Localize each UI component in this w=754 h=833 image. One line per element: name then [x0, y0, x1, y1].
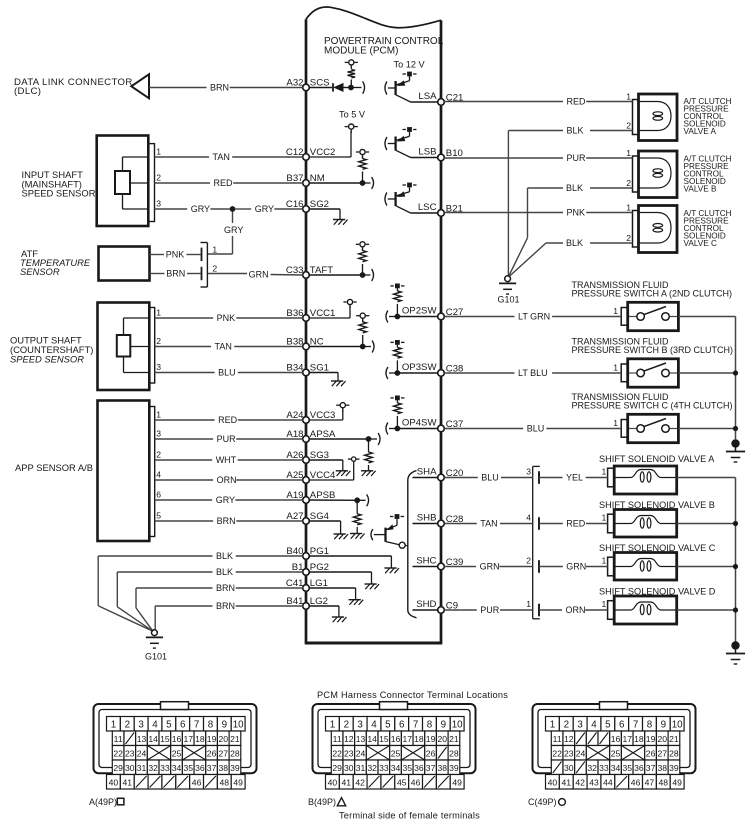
svg-text:PNK: PNK: [567, 208, 586, 218]
svg-text:34: 34: [172, 763, 182, 773]
pin A32/SCS on PCM left edge: [286, 78, 329, 91]
transistor Q-SH shift solenoid driver: [371, 514, 408, 548]
pin C38/OP3SW on PCM right edge: [402, 362, 464, 377]
svg-text:BLK: BLK: [567, 126, 584, 136]
svg-text:7: 7: [413, 720, 418, 731]
svg-text:18: 18: [634, 734, 644, 744]
svg-text:36: 36: [634, 763, 644, 773]
svg-text:40: 40: [328, 778, 338, 788]
ATF temperature sensor box: [99, 247, 150, 281]
continuation mark TAFT: [372, 269, 374, 281]
svg-text:3: 3: [526, 466, 531, 476]
svg-text:34: 34: [611, 763, 621, 773]
svg-text:RED: RED: [567, 97, 587, 107]
ground SG3 inside PCM: [336, 471, 351, 476]
pin A27/SG4 on PCM left edge: [286, 511, 329, 524]
svg-text:39: 39: [669, 763, 679, 773]
continuation mark APSA: [378, 433, 380, 445]
node OP3SW junction: [389, 370, 438, 376]
svg-text:20: 20: [437, 734, 447, 744]
bracket distributing SH driver to SHA-SHD: [408, 471, 417, 618]
svg-text:GRY: GRY: [191, 204, 210, 214]
svg-text:TAN: TAN: [480, 519, 497, 529]
wire ORN APP sensor to A25: [155, 475, 303, 485]
transistor Q-LSC (PNP driver): [385, 183, 417, 213]
svg-text:30: 30: [564, 763, 574, 773]
svg-text:23: 23: [125, 748, 135, 758]
svg-text:11: 11: [114, 734, 123, 744]
resistor R5 APSA pull-down: [365, 439, 373, 471]
svg-text:To 5 V: To 5 V: [339, 110, 366, 120]
svg-text:38: 38: [218, 763, 228, 773]
coil of shift solenoid valve A: [614, 470, 677, 483]
svg-text:33: 33: [599, 763, 609, 773]
caption Terminal side of female terminals: [339, 811, 480, 821]
svg-text:35: 35: [183, 763, 193, 773]
svg-text:41: 41: [342, 778, 352, 788]
svg-text:30: 30: [125, 763, 135, 773]
continuation mark OP4SW: [386, 423, 388, 435]
wire LSC collector to pin: [411, 212, 438, 214]
svg-text:LSA: LSA: [418, 91, 437, 102]
svg-text:A(49P): A(49P): [89, 797, 117, 807]
continuation mark APSB: [367, 494, 369, 506]
svg-text:1: 1: [330, 720, 335, 731]
ATF TEMPERATURE SENSOR label: [20, 248, 91, 277]
resistor R-OP2SW pull-up to 12V: [390, 284, 404, 317]
A/T clutch solenoid valve A label: [684, 97, 732, 136]
svg-text:23: 23: [344, 748, 354, 758]
wire SHB from bracket to pin: [413, 523, 438, 525]
wire BRN from DLC to pin A32: [149, 83, 303, 93]
svg-text:SHD: SHD: [416, 599, 436, 610]
wire SG3 to ground: [309, 460, 343, 471]
svg-text:PUR: PUR: [567, 153, 587, 163]
svg-text:OP4SW: OP4SW: [402, 417, 438, 428]
shift solenoid valve D box: [608, 596, 677, 624]
svg-text:LT BLU: LT BLU: [518, 368, 548, 378]
wire BLK from valve A pin2 to G101: [508, 126, 632, 277]
ground bus for pressure switches: [733, 317, 738, 440]
svg-text:19: 19: [207, 734, 217, 744]
wire shift valve B output to ground bus: [677, 523, 736, 525]
svg-text:PNK: PNK: [166, 250, 185, 260]
svg-text:SENSOR: SENSOR: [20, 266, 60, 277]
svg-text:9: 9: [661, 720, 666, 731]
svg-text:8: 8: [427, 720, 433, 731]
APP sensor box: [98, 401, 155, 542]
svg-text:BRN: BRN: [217, 516, 236, 526]
svg-text:17: 17: [183, 734, 193, 744]
svg-text:17: 17: [622, 734, 632, 744]
shift solenoid valve B label: [599, 500, 715, 510]
svg-text:15: 15: [160, 734, 170, 744]
resistor R-OP4SW pull-up to 12V: [390, 396, 404, 429]
wire NC with junction: [309, 344, 371, 350]
svg-text:TAN: TAN: [215, 342, 232, 352]
wire PUR from PCM to connector pin 1: [444, 605, 533, 615]
svg-text:28: 28: [449, 748, 459, 758]
shift solenoid valve A label: [599, 454, 715, 464]
svg-text:21: 21: [449, 734, 459, 744]
pin 1 label shift valve B: [602, 512, 607, 522]
svg-text:3: 3: [156, 199, 161, 209]
svg-text:VALVE B: VALVE B: [684, 185, 717, 194]
wire TAN input sensor pin1 to C12: [155, 152, 303, 162]
wire NM with junction: [309, 180, 370, 186]
svg-text:37: 37: [207, 763, 217, 773]
ATF in-line connector: [201, 243, 208, 288]
A/T clutch pressure control solenoid valve A box: [633, 94, 678, 141]
ground SG4 inside PCM: [334, 534, 349, 539]
ground LG1 inside PCM: [349, 600, 364, 605]
ground APSA resistor: [361, 471, 376, 476]
svg-text:8: 8: [647, 720, 653, 731]
title PCM Harness Connector Terminal Locations: [317, 690, 508, 700]
svg-text:2: 2: [125, 720, 130, 731]
svg-text:41: 41: [562, 778, 572, 788]
svg-text:2: 2: [156, 173, 161, 183]
A/T clutch pressure control solenoid valve B box: [633, 151, 678, 198]
pin C37/OP4SW on PCM right edge: [402, 417, 464, 432]
pin C9/SHD on PCM right edge: [416, 599, 458, 614]
pin A24/VCC3 on PCM left edge: [286, 410, 335, 423]
pin 1 label ATF connector: [212, 245, 217, 255]
wire SG2 to ground: [309, 209, 340, 220]
coil of solenoid valve B: [639, 158, 672, 188]
pin 1 label valve C: [626, 203, 631, 213]
connector C(49P) shell: [533, 702, 696, 774]
ground SG1 inside PCM: [331, 381, 346, 386]
wire APSA with junction: [309, 436, 377, 442]
pin A18/APSA on PCM left edge: [286, 429, 336, 442]
A/T clutch pressure control solenoid valve C box: [633, 206, 678, 253]
resistor R1 SCS pull-up: [345, 60, 358, 88]
pin C20/SHA on PCM right edge: [417, 466, 464, 481]
pin C12/VCC2 on PCM left edge: [286, 147, 336, 160]
svg-text:SHIFT SOLENOID VALVE A: SHIFT SOLENOID VALVE A: [599, 454, 715, 464]
svg-text:1: 1: [602, 466, 607, 476]
svg-text:9: 9: [441, 720, 446, 731]
svg-text:1: 1: [602, 512, 607, 522]
svg-text:12: 12: [564, 734, 574, 744]
svg-text:OP3SW: OP3SW: [402, 362, 438, 373]
ground symbol pressure switch bus: [726, 439, 745, 462]
svg-text:3: 3: [138, 720, 144, 731]
PCM module box outline: [305, 7, 443, 643]
transistor Q-LSB (PNP driver): [385, 127, 417, 157]
svg-text:WHT: WHT: [216, 455, 237, 465]
ground APSB resistor: [350, 534, 365, 539]
svg-text:SPEED SENSOR: SPEED SENSOR: [22, 188, 96, 199]
wire SHA from bracket to pin: [413, 477, 438, 479]
svg-text:6: 6: [399, 720, 405, 731]
svg-text:1: 1: [111, 720, 116, 731]
svg-text:BLU: BLU: [218, 368, 236, 378]
transmission fluid pressure switch C: [621, 414, 678, 442]
svg-text:21: 21: [669, 734, 679, 744]
pin 2 label valve C: [626, 233, 631, 243]
svg-text:20: 20: [657, 734, 667, 744]
INPUT SHAFT SPEED SENSOR label: [22, 169, 96, 199]
svg-text:TAN: TAN: [213, 152, 230, 162]
label To 12 V: [394, 60, 426, 70]
pin C16/SG2 on PCM left edge: [286, 199, 329, 212]
pin A25/VCC4 on PCM left edge: [286, 470, 336, 483]
svg-text:6: 6: [180, 720, 186, 731]
svg-text:8: 8: [208, 720, 214, 731]
connector B(49P) terminal row 4: [331, 760, 459, 775]
wire PNK from B21/LSC to valve C pin1: [444, 208, 632, 218]
continuation mark OP3SW: [386, 367, 388, 379]
svg-text:2: 2: [156, 450, 161, 460]
pin 2 label ATF connector: [212, 264, 217, 274]
coil of shift solenoid valve D: [614, 602, 677, 615]
transmission fluid pressure switch C label: [572, 392, 733, 411]
svg-text:3: 3: [577, 720, 583, 731]
svg-text:SHC: SHC: [416, 555, 436, 566]
svg-text:1: 1: [550, 720, 555, 731]
resistor R3 TAFT pull-up: [356, 242, 369, 275]
svg-text:B(49P): B(49P): [308, 797, 336, 807]
svg-text:PRESSURE SWITCH C (4TH CLUTCH): PRESSURE SWITCH C (4TH CLUTCH): [572, 401, 733, 411]
svg-text:20: 20: [218, 734, 228, 744]
pin 1 label switch C: [613, 418, 618, 428]
svg-text:G101: G101: [497, 295, 519, 305]
wire PNK ATF sensor to connector: [150, 250, 201, 260]
pin B41/LG2 on PCM left edge: [286, 596, 328, 609]
svg-text:4: 4: [371, 720, 377, 731]
svg-text:40: 40: [548, 778, 558, 788]
wire switch A output to ground bus: [678, 316, 735, 318]
continuation mark SCS: [363, 81, 365, 93]
pin B21/LSC on PCM right edge: [418, 202, 463, 217]
svg-text:GRY: GRY: [216, 495, 235, 505]
pin 1 label valve B: [626, 148, 631, 158]
wire BLK from valve B pin2 to G101: [509, 183, 633, 276]
svg-text:14: 14: [367, 734, 377, 744]
svg-text:2: 2: [626, 178, 631, 188]
svg-text:15: 15: [379, 734, 389, 744]
wire PG1 to ground inside PCM: [309, 556, 391, 568]
connector bracket for shift solenoid wires: [533, 466, 540, 618]
wire BLU from PCM to connector pin 3: [444, 473, 533, 483]
wire VCC3 to supply terminal: [309, 403, 349, 420]
wire switch B output to ground bus: [678, 372, 735, 374]
svg-text:BLK: BLK: [566, 183, 583, 193]
ground SG2 inside PCM: [333, 220, 348, 225]
wire SG4 to ground: [309, 521, 341, 534]
pin A26/SG3 on PCM left edge: [286, 450, 329, 463]
svg-text:GRY: GRY: [224, 225, 243, 235]
DATA LINK CONNECTOR label: [14, 77, 133, 97]
svg-text:12: 12: [344, 734, 354, 744]
connector A(49P) terminal row 1: [107, 717, 246, 732]
connector pin 1 terminal: [526, 599, 539, 617]
wire shift valve A output to ground bus: [677, 477, 736, 479]
svg-text:23: 23: [564, 748, 574, 758]
svg-text:46: 46: [192, 778, 202, 788]
wire RED from C21/LSA to valve A pin1: [444, 97, 632, 107]
svg-text:18: 18: [414, 734, 424, 744]
svg-text:10: 10: [233, 720, 244, 731]
svg-text:32: 32: [587, 763, 597, 773]
label To 5 V: [339, 110, 366, 120]
svg-text:28: 28: [669, 748, 679, 758]
svg-text:Terminal side of female termin: Terminal side of female terminals: [339, 811, 480, 821]
wire PUR APP sensor to A18: [155, 434, 303, 444]
svg-text:SPEED SENSOR: SPEED SENSOR: [10, 353, 84, 364]
svg-text:BLK: BLK: [216, 551, 233, 561]
svg-text:BLK: BLK: [216, 567, 233, 577]
wire GRN to shift valve C pin1: [539, 562, 608, 572]
connector pin 2 terminal: [526, 555, 539, 573]
svg-text:4: 4: [156, 470, 161, 480]
svg-text:LSC: LSC: [418, 202, 437, 213]
svg-text:44: 44: [603, 778, 613, 788]
pin numbers output sensor: [156, 308, 161, 373]
svg-text:42: 42: [355, 778, 365, 788]
wire PNK output sensor pin1 to B36: [155, 313, 303, 323]
pin 1 label shift valve A: [602, 466, 607, 476]
svg-text:(DLC): (DLC): [14, 86, 41, 97]
svg-text:1: 1: [156, 410, 161, 420]
pin C28/SHB on PCM right edge: [417, 512, 464, 527]
svg-text:26: 26: [646, 748, 656, 758]
svg-text:33: 33: [379, 763, 389, 773]
connector B(49P) terminal row 1: [326, 717, 465, 732]
connector C(49P) terminal row 2: [551, 731, 679, 746]
svg-text:11: 11: [553, 734, 562, 744]
transmission fluid pressure switch B label: [572, 337, 734, 356]
pin 1 label switch B: [613, 362, 618, 372]
pin A19/APSB on PCM left edge: [286, 490, 335, 503]
wire PG2 to ground inside PCM: [309, 572, 371, 584]
svg-text:2: 2: [212, 264, 217, 274]
diode D1 on SCS line inside PCM: [309, 83, 351, 91]
ground G101 for clutch valves: [497, 276, 519, 305]
pin B10/LSB on PCM right edge: [418, 146, 463, 161]
pin B36/VCC1 on PCM left edge: [286, 308, 335, 321]
wire RED to shift valve B pin1: [539, 519, 608, 529]
wire BLK from B40 PG1 to G101: [98, 551, 303, 631]
svg-text:5: 5: [605, 720, 611, 731]
connector B(49P) label: [308, 797, 346, 807]
svg-text:OP2SW: OP2SW: [402, 305, 438, 316]
svg-text:35: 35: [622, 763, 632, 773]
wire shift valve D output to ground bus: [677, 609, 736, 611]
wire PUR from B10/LSB to valve B pin1: [444, 153, 632, 163]
svg-text:13: 13: [137, 734, 147, 744]
svg-text:ORN: ORN: [566, 605, 586, 615]
ground G101 bottom left: [145, 630, 167, 662]
svg-text:5: 5: [166, 720, 172, 731]
resistor R4 NC pull-up: [356, 313, 369, 346]
svg-text:25: 25: [391, 748, 401, 758]
pin B37/NM on PCM left edge: [286, 173, 324, 186]
wire LSA collector to pin: [411, 101, 438, 103]
svg-text:VALVE A: VALVE A: [684, 127, 717, 136]
coil of shift solenoid valve C: [614, 559, 677, 572]
svg-text:26: 26: [207, 748, 217, 758]
ground PG1 inside PCM: [384, 568, 399, 573]
svg-text:1: 1: [156, 147, 161, 157]
svg-text:SHB: SHB: [417, 512, 437, 523]
svg-text:1: 1: [613, 418, 618, 428]
wire GRN ATF connector to C33: [208, 270, 303, 280]
pin 1 label switch A: [613, 306, 618, 316]
ground bus for shift solenoids: [733, 478, 738, 642]
pin C27/OP2SW on PCM right edge: [402, 305, 464, 320]
svg-text:6: 6: [156, 490, 161, 500]
svg-text:ORN: ORN: [217, 475, 237, 485]
svg-text:30: 30: [344, 763, 354, 773]
svg-text:17: 17: [402, 734, 412, 744]
wire GRY APP sensor to A19: [155, 495, 303, 505]
APP SENSOR A/B label: [15, 462, 93, 473]
pin C33/TAFT on PCM left edge: [286, 265, 333, 278]
svg-text:13: 13: [356, 734, 366, 744]
wire LT BLU from PCM to switch B: [444, 368, 621, 378]
svg-text:7: 7: [633, 720, 638, 731]
coil of solenoid valve C: [639, 213, 672, 244]
wire APSB with junction: [309, 497, 365, 503]
continuation mark NC: [372, 341, 374, 353]
svg-text:49: 49: [452, 778, 462, 788]
input shaft speed sensor box: [97, 136, 155, 227]
svg-text:25: 25: [172, 748, 182, 758]
svg-text:1: 1: [626, 203, 631, 213]
node OP2SW junction: [389, 314, 438, 320]
pin 2 label valve A: [626, 121, 631, 131]
svg-text:2: 2: [564, 720, 569, 731]
shift solenoid valve D label: [599, 586, 716, 596]
OUTPUT SHAFT SPEED SENSOR label: [10, 335, 93, 365]
svg-text:35: 35: [402, 763, 412, 773]
svg-text:G101: G101: [145, 652, 167, 662]
DLC arrow symbol: [131, 74, 149, 98]
svg-text:40: 40: [109, 778, 119, 788]
svg-text:45: 45: [397, 778, 407, 788]
connector A(49P) terminal row 5: [107, 775, 246, 790]
connector A(49P) terminal row 3: [112, 746, 240, 761]
svg-text:29: 29: [332, 763, 342, 773]
svg-text:6: 6: [619, 720, 625, 731]
svg-text:7: 7: [194, 720, 199, 731]
pin numbers APP sensor: [156, 410, 161, 521]
svg-text:1: 1: [602, 555, 607, 565]
svg-text:36: 36: [414, 763, 424, 773]
svg-text:2: 2: [344, 720, 349, 731]
svg-text:19: 19: [426, 734, 436, 744]
svg-text:37: 37: [426, 763, 436, 773]
wire BRN APP sensor to A27: [155, 516, 303, 526]
wire GRY branch down to ATF connector pin1: [208, 211, 244, 254]
svg-text:APP SENSOR A/B: APP SENSOR A/B: [15, 462, 93, 473]
pin numbers input sensor: [156, 147, 161, 209]
svg-text:2: 2: [526, 555, 531, 565]
transmission fluid pressure switch A: [621, 302, 678, 330]
svg-text:9: 9: [222, 720, 227, 731]
svg-text:RED: RED: [566, 519, 586, 529]
svg-text:16: 16: [391, 734, 401, 744]
pin 1 label valve A: [626, 92, 631, 102]
svg-text:4: 4: [152, 720, 158, 731]
svg-text:3: 3: [156, 429, 161, 439]
svg-text:16: 16: [172, 734, 182, 744]
connector A(49P) terminal row 4: [112, 760, 240, 775]
svg-text:BRN: BRN: [166, 269, 185, 279]
